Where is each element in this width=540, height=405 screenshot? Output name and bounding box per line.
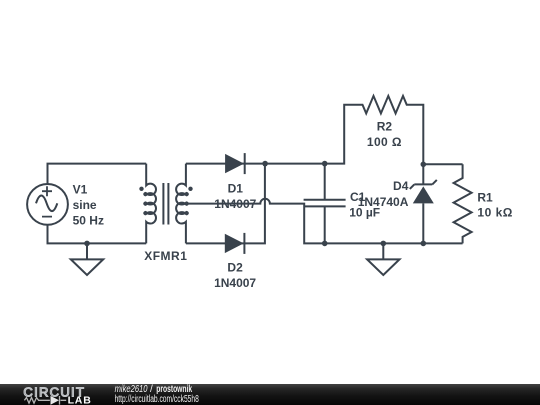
svg-text:LAB: LAB <box>68 394 92 405</box>
svg-text:http://circuitlab.com/cck55h8: http://circuitlab.com/cck55h8 <box>115 394 199 405</box>
svg-text:1N4007: 1N4007 <box>214 197 256 211</box>
svg-text:1N4740A: 1N4740A <box>358 195 409 209</box>
svg-text:D2: D2 <box>227 261 243 275</box>
svg-text:D1: D1 <box>228 181 244 195</box>
svg-text:10 kΩ: 10 kΩ <box>477 206 512 220</box>
svg-text:sine: sine <box>73 198 97 212</box>
svg-text:50 Hz: 50 Hz <box>73 213 104 227</box>
svg-text:V1: V1 <box>73 182 88 196</box>
svg-text:XFMR1: XFMR1 <box>144 249 187 263</box>
svg-text:D4: D4 <box>393 179 409 193</box>
svg-text:100 Ω: 100 Ω <box>367 135 402 149</box>
svg-text:1N4007: 1N4007 <box>214 276 256 290</box>
svg-text:R2: R2 <box>377 120 393 134</box>
svg-text:R1: R1 <box>477 190 493 204</box>
